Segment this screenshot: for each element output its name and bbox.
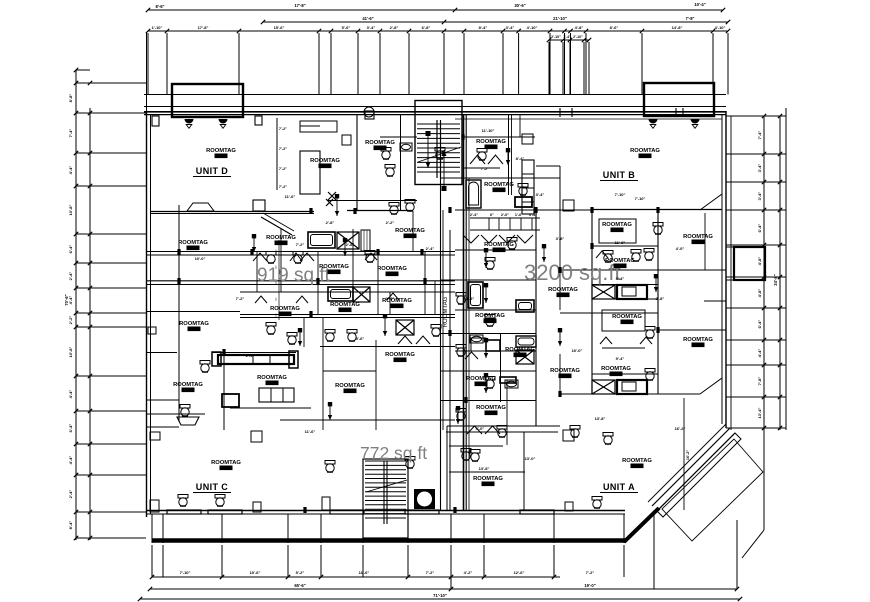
svg-text:4'-8": 4'-8" <box>757 257 762 266</box>
svg-text:ROOMTAG: ROOMTAG <box>602 222 632 228</box>
deck diagonal heavy <box>624 508 659 542</box>
svg-text:3'-4": 3'-4" <box>386 296 395 301</box>
bottom dimension row 2 <box>150 588 737 590</box>
svg-text:3'-4": 3'-4" <box>536 192 545 197</box>
unit B bedroom chamfer top <box>700 194 722 210</box>
toilet fixture <box>456 409 466 421</box>
svg-text:UNIT D: UNIT D <box>196 166 228 176</box>
unit C small square marker <box>251 431 262 442</box>
unit B room walls <box>592 245 658 247</box>
svg-text:8'-4": 8'-4" <box>516 156 525 161</box>
toilet fixture <box>180 405 190 417</box>
toilet fixture <box>293 252 303 264</box>
svg-text:5'-6": 5'-6" <box>356 336 365 341</box>
crossed box (appliance) <box>592 285 615 299</box>
bathtub <box>328 287 353 301</box>
left dimension line inner <box>89 108 91 540</box>
svg-text:7'-4": 7'-4" <box>68 129 73 138</box>
room tag 23 <box>601 366 631 376</box>
svg-text:ROOMTAG: ROOMTAG <box>475 313 505 319</box>
stair dim leaders <box>427 135 429 168</box>
room tag 14 <box>179 321 209 331</box>
svg-text:7'-8": 7'-8" <box>685 16 694 21</box>
svg-text:34'-8": 34'-8" <box>773 274 778 285</box>
toilet fixture <box>325 461 335 473</box>
svg-text:ROOMTAG: ROOMTAG <box>683 337 713 343</box>
svg-text:13'-4": 13'-4" <box>757 407 762 418</box>
right exterior wall <box>721 114 723 424</box>
bottom stair stringer <box>383 461 385 524</box>
svg-text:2'-4": 2'-4" <box>426 246 435 251</box>
toilet fixture <box>389 203 399 215</box>
wall y200 center <box>327 200 417 202</box>
top extension lines <box>147 33 149 95</box>
svg-text:|: | <box>276 313 277 317</box>
svg-text:16'-2": 16'-2" <box>675 426 686 431</box>
svg-text:2'-4": 2'-4" <box>470 213 478 217</box>
svg-text:4'-4": 4'-4" <box>757 349 762 358</box>
room tag 31 <box>211 460 241 470</box>
svg-text:10'-8": 10'-8" <box>68 204 73 215</box>
svg-text:10'-8": 10'-8" <box>68 346 73 357</box>
svg-text:4'-4": 4'-4" <box>68 456 73 465</box>
svg-text:7'-10": 7'-10" <box>180 570 191 575</box>
unit label UNIT C <box>193 482 231 493</box>
toilet fixture <box>485 315 495 327</box>
svg-text:10'-6": 10'-6" <box>250 570 261 575</box>
toilet fixture <box>485 377 495 389</box>
svg-text:ROOMTAG: ROOMTAG <box>330 302 360 308</box>
svg-text:ROOMTAG: ROOMTAG <box>476 139 506 145</box>
room tag 1 <box>206 148 236 158</box>
svg-text:UNIT C: UNIT C <box>196 482 228 492</box>
toilet fixture <box>266 323 276 335</box>
top-left balcony (thick) <box>172 84 243 117</box>
right dimension lines <box>763 116 765 530</box>
deck diagonal thin rails <box>657 433 735 511</box>
diagonal walkway band <box>657 433 741 517</box>
crossed box (appliance) <box>337 232 359 249</box>
svg-text:2'-8": 2'-8" <box>326 220 335 225</box>
svg-text:7'-10": 7'-10" <box>635 196 646 201</box>
lower deck heavy edge <box>152 538 626 543</box>
room tag 6 <box>178 240 208 250</box>
svg-text:ROOMTAG: ROOMTAG <box>476 405 506 411</box>
room tag 22 <box>550 368 580 378</box>
toilet fixture <box>456 293 466 305</box>
wall row y292 <box>240 291 455 293</box>
sink <box>505 380 518 388</box>
wall column x224 <box>223 352 225 430</box>
window marks top wall <box>559 108 561 117</box>
svg-text:ROOMTAG: ROOMTAG <box>179 321 209 327</box>
top dimension line row 2 <box>263 21 728 23</box>
unit label UNIT A <box>600 482 638 493</box>
svg-text:3'-8": 3'-8" <box>556 236 565 241</box>
unit C upper-left closet <box>146 399 179 401</box>
sink <box>400 143 412 151</box>
svg-text:7'-2": 7'-2" <box>279 147 287 151</box>
svg-text:7'-8": 7'-8" <box>757 377 762 386</box>
svg-text:4'-4": 4'-4" <box>68 390 73 399</box>
toilet fixture <box>431 325 441 337</box>
toilet fixture <box>485 258 495 270</box>
svg-text:6'-4": 6'-4" <box>68 424 73 433</box>
svg-text:|: | <box>276 281 277 285</box>
svg-text:19'-0": 19'-0" <box>584 583 595 588</box>
svg-text:3'-4": 3'-4" <box>757 164 762 173</box>
svg-text:2'-4": 2'-4" <box>68 272 73 281</box>
wall row y408 <box>230 407 311 409</box>
room tag 2 <box>310 158 340 168</box>
cross marks <box>328 192 336 200</box>
crossed box (appliance) <box>396 320 414 335</box>
svg-text:4'-0": 4'-0" <box>676 246 685 251</box>
unit B long wall y210 <box>592 209 722 211</box>
svg-text:11'-6": 11'-6" <box>359 570 370 575</box>
wall row y414 left <box>146 413 205 415</box>
unit D kitchen small box <box>342 135 351 145</box>
room tag 19 <box>612 314 642 324</box>
room tag 11 <box>270 306 300 316</box>
corridor cell wall <box>500 333 502 402</box>
small rect on D wall <box>253 200 265 211</box>
svg-text:4'-8": 4'-8" <box>757 289 762 298</box>
stair treads lower <box>365 461 406 518</box>
trapezoid bay on unit D wall <box>187 203 214 211</box>
svg-text:ROOMTAG: ROOMTAG <box>550 368 580 374</box>
unit A chamfer <box>700 378 722 394</box>
svg-text:4'-8": 4'-8" <box>575 25 584 30</box>
unit A small square marker <box>563 430 574 441</box>
lower deck band verticals <box>151 514 153 543</box>
svg-text:11'-10": 11'-10" <box>482 128 495 133</box>
toilet fixture <box>365 251 375 263</box>
toilet fixture <box>347 330 357 342</box>
wall row y420 <box>280 419 455 421</box>
top wall inner face line <box>455 118 722 120</box>
svg-text:|: | <box>276 297 277 301</box>
svg-text:ROOMTAG: ROOMTAG <box>505 347 535 353</box>
wall y371 <box>323 370 376 372</box>
crossed box (appliance) <box>353 287 370 302</box>
room tag 32 <box>622 458 652 468</box>
extra dim leaders with arrows <box>336 196 338 216</box>
upper deck light lines <box>144 94 726 96</box>
svg-text:4'-10": 4'-10" <box>715 25 726 30</box>
svg-text:3'-4": 3'-4" <box>757 192 762 201</box>
svg-text:6'-4": 6'-4" <box>68 245 73 254</box>
room tag 27 <box>173 382 203 392</box>
toilet fixture <box>461 449 471 461</box>
door knobs under balcony D <box>185 119 194 124</box>
vent circle on wall <box>364 107 374 117</box>
svg-text:10'-0": 10'-0" <box>195 256 206 261</box>
bottom exterior wall units <box>147 510 625 512</box>
room tag 3 <box>365 140 395 150</box>
room tag 25 <box>466 376 496 386</box>
corridor kitchen counters <box>522 160 534 214</box>
svg-text:ROOMTAG: ROOMTAG <box>484 182 514 188</box>
svg-text:ROOMTAG: ROOMTAG <box>211 460 241 466</box>
svg-text:11'-8": 11'-8" <box>615 240 626 245</box>
toilet fixture <box>405 200 415 212</box>
svg-text:2'-2": 2'-2" <box>386 220 395 225</box>
svg-text:|: | <box>276 265 277 269</box>
room tag 9 <box>319 264 349 274</box>
svg-text:4'-10": 4'-10" <box>527 25 538 30</box>
svg-text:2'-8": 2'-8" <box>390 25 399 30</box>
unit label UNIT B <box>600 170 638 181</box>
svg-text:16'-2": 16'-2" <box>686 450 690 461</box>
svg-text:7'-2": 7'-2" <box>481 167 489 171</box>
crossed box (appliance) <box>516 350 534 364</box>
svg-text:12'-6": 12'-6" <box>514 570 525 575</box>
stair treads upper <box>417 124 460 172</box>
svg-text:17'-8": 17'-8" <box>198 25 209 30</box>
svg-text:7'-2": 7'-2" <box>279 167 287 171</box>
vertical interior dim chains <box>278 240 280 320</box>
corridor sink dark <box>486 340 500 351</box>
svg-text:13'-0": 13'-0" <box>525 456 536 461</box>
bathtub <box>516 300 534 312</box>
room tag 10 <box>377 266 407 276</box>
corridor closet cells <box>488 218 490 230</box>
toilet fixture <box>507 238 517 250</box>
svg-text:1'-10": 1'-10" <box>152 25 163 30</box>
bottom stair break <box>366 480 407 492</box>
top dimension line row 1 <box>148 9 723 11</box>
unit D kitchen counter top <box>300 121 337 132</box>
svg-text:UNIT B: UNIT B <box>603 170 635 180</box>
toilet fixture <box>381 148 391 160</box>
svg-text:4'-8": 4'-8" <box>466 296 475 301</box>
wall row y281 <box>146 280 455 282</box>
door jamb marks <box>309 208 312 214</box>
toilet fixture <box>603 433 613 445</box>
right wall extension line <box>730 116 732 430</box>
unit B small square marker <box>563 200 574 211</box>
svg-text:ROOMTAG: ROOMTAG <box>173 382 203 388</box>
room tag 16 <box>602 222 632 232</box>
stair break line <box>418 147 461 162</box>
corridor chevrons top <box>470 155 485 164</box>
room tag 4 <box>476 139 506 149</box>
toilet fixture <box>325 330 335 342</box>
svg-text:772 sq.ft: 772 sq.ft <box>360 443 427 463</box>
svg-text:ROOMTAG: ROOMTAG <box>365 140 395 146</box>
svg-text:ROOMTAG: ROOMTAG <box>270 306 300 312</box>
svg-text:8'-8": 8'-8" <box>68 94 73 103</box>
svg-text:ROOMTAG: ROOMTAG <box>548 287 578 293</box>
svg-text:11'-6": 11'-6" <box>285 194 296 199</box>
window marks bottom wall <box>167 510 201 514</box>
svg-text:7'-2": 7'-2" <box>296 242 305 247</box>
room tag 26 <box>476 405 506 415</box>
toilet fixture <box>631 250 641 262</box>
unit B rooms verticals <box>591 209 593 394</box>
toilet fixture <box>603 251 613 263</box>
corridor cabinet <box>471 338 486 351</box>
svg-text:6'-4": 6'-4" <box>757 224 762 233</box>
toilet fixture <box>405 457 415 469</box>
room tag 15 <box>683 234 713 244</box>
top dimension line row 3 <box>148 30 728 32</box>
small rect on C wall <box>253 502 261 512</box>
svg-text:ROOMTAG: ROOMTAG <box>395 228 425 234</box>
room tag 28 <box>257 375 287 385</box>
unit C closet wall <box>146 426 179 428</box>
corridor walls <box>463 114 465 510</box>
toilet fixture <box>570 426 580 438</box>
kitchen counter dark bar <box>218 355 294 364</box>
toilet fixture <box>456 345 466 357</box>
svg-text:7'-2": 7'-2" <box>279 127 287 131</box>
svg-text:ROOMTAG: ROOMTAG <box>266 235 296 241</box>
svg-text:14'-8": 14'-8" <box>672 25 683 30</box>
toilet fixture <box>200 361 210 373</box>
svg-text:6'-8": 6'-8" <box>422 25 431 30</box>
unit C kitchen counter rect <box>259 388 294 402</box>
svg-text:ROOMTAG: ROOMTAG <box>601 366 631 372</box>
corridor chevron row low <box>463 235 479 243</box>
toilet fixture <box>385 165 395 177</box>
svg-text:ROOMTAG: ROOMTAG <box>319 264 349 270</box>
bottom dimension row 3 <box>140 598 740 600</box>
svg-text:6'-4": 6'-4" <box>757 320 762 329</box>
svg-text:4'-0": 4'-0" <box>476 426 485 431</box>
left exterior wall <box>146 111 148 517</box>
svg-text:21'-10": 21'-10" <box>553 16 567 21</box>
svg-text:9'-4": 9'-4" <box>616 356 625 361</box>
svg-text:ROOMTAG: ROOMTAG <box>605 258 635 264</box>
svg-text:8'-4": 8'-4" <box>479 25 488 30</box>
svg-text:8'-6": 8'-6" <box>155 4 164 9</box>
room tag 34 <box>484 242 514 252</box>
svg-text:5'-2": 5'-2" <box>296 570 305 575</box>
toilet fixture <box>178 495 188 507</box>
room tag unit A bath <box>473 476 503 486</box>
chevrons row y260 <box>253 253 267 261</box>
svg-text:2'-10": 2'-10" <box>573 35 583 39</box>
wall rects below top wall <box>152 116 159 126</box>
svg-text:7'-2": 7'-2" <box>279 185 287 189</box>
unit B closet inner <box>599 219 636 243</box>
bathtub <box>468 282 483 308</box>
svg-text:|: | <box>276 249 277 253</box>
bottom dimension row 1 <box>152 576 560 578</box>
toilet fixture <box>592 497 602 509</box>
room tag 21 <box>505 347 535 357</box>
toilet fixture <box>518 184 528 196</box>
svg-text:17'-8": 17'-8" <box>294 3 305 8</box>
bottom stair enclosure <box>363 459 408 538</box>
bottom extension lines <box>151 545 153 577</box>
rotated square deck (diamond) <box>662 439 763 541</box>
top exterior wall <box>144 111 726 113</box>
svg-text:41'-6": 41'-6" <box>362 16 373 21</box>
room tag 24 <box>475 313 505 323</box>
svg-text:ROOMTAG: ROOMTAG <box>466 376 496 382</box>
svg-text:3'-4": 3'-4" <box>506 25 515 30</box>
svg-text:10'-4": 10'-4" <box>694 2 705 7</box>
svg-text:7'-2": 7'-2" <box>236 296 245 301</box>
wall row y352 left <box>146 352 177 354</box>
svg-text:7'-4": 7'-4" <box>757 131 762 140</box>
svg-text:70'-6": 70'-6" <box>64 294 69 305</box>
svg-text:ROOMTAG: ROOMTAG <box>683 234 713 240</box>
room tag 12 <box>330 302 360 312</box>
room tag 30 <box>385 352 415 362</box>
toilet fixture <box>497 426 507 438</box>
svg-text:2'-2": 2'-2" <box>68 316 73 325</box>
toilet fixture <box>215 495 225 507</box>
toilet fixture <box>644 249 654 261</box>
svg-text:9'-4": 9'-4" <box>616 276 625 281</box>
crossed box (appliance) <box>592 380 615 394</box>
room tag 7 <box>266 235 296 245</box>
toilet fixture <box>653 223 663 235</box>
wall row y252 <box>146 251 455 253</box>
corridor counter dark <box>515 197 532 207</box>
unit D lower wall <box>150 211 314 213</box>
bathtub <box>308 232 335 248</box>
unit D interior dim chain <box>276 118 278 190</box>
svg-text:2'-8": 2'-8" <box>346 242 355 247</box>
svg-text:3'-4": 3'-4" <box>367 25 376 30</box>
svg-text:11'-6": 11'-6" <box>305 429 316 434</box>
corridor mid walls <box>455 249 536 251</box>
stair enclosure top-center <box>415 101 462 185</box>
toilet fixture <box>477 149 487 161</box>
svg-text:7'-2": 7'-2" <box>426 570 435 575</box>
svg-text:30'-6": 30'-6" <box>514 3 525 8</box>
svg-text:7'-2": 7'-2" <box>586 570 595 575</box>
svg-text:2'-10": 2'-10" <box>551 35 561 39</box>
toilet fixture <box>266 252 276 264</box>
svg-text:5'-6": 5'-6" <box>342 25 351 30</box>
wall row y347 <box>320 346 455 348</box>
svg-text:7'-10": 7'-10" <box>615 192 626 197</box>
diagonal wall below unit D <box>261 217 292 235</box>
svg-text:2'-4": 2'-4" <box>246 353 255 358</box>
corridor upper bath walls <box>463 136 535 138</box>
room tag 20 <box>683 337 713 347</box>
svg-text:ROOMTAG: ROOMTAG <box>257 375 287 381</box>
unit A lower rooms <box>446 426 448 510</box>
svg-text:UNIT A: UNIT A <box>603 482 635 492</box>
svg-text:71'-10": 71'-10" <box>433 593 447 598</box>
svg-text:ROOMTAG: ROOMTAG <box>443 296 449 327</box>
toilet fixture <box>645 327 655 339</box>
room tag 18 <box>548 287 578 297</box>
svg-text:6": 6" <box>490 213 494 217</box>
stair left wall <box>400 114 402 210</box>
room tag 29 <box>335 383 365 393</box>
shower box dark <box>414 489 435 509</box>
svg-text:4'-2": 4'-2" <box>464 570 473 575</box>
chevrons row y297 <box>255 296 267 303</box>
svg-text:13'-8": 13'-8" <box>595 416 606 421</box>
unit label UNIT D <box>193 166 231 177</box>
unit D kitchen island <box>300 151 320 194</box>
room tag 33 <box>484 182 514 192</box>
svg-text:15'-6": 15'-6" <box>274 25 285 30</box>
bath wall y137 <box>380 136 417 138</box>
right side bay balcony <box>734 247 765 280</box>
wall verticals central <box>256 252 258 292</box>
room tag 8 <box>395 228 425 238</box>
